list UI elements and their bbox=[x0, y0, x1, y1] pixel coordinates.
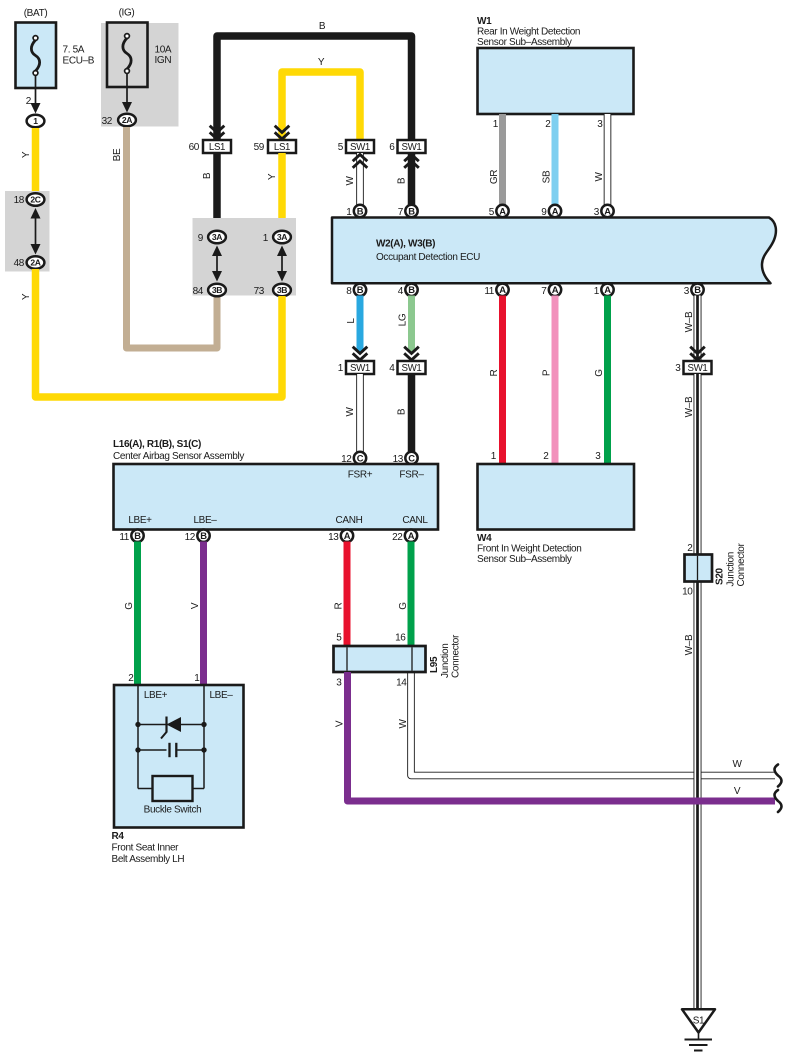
svg-text:7. 5A: 7. 5A bbox=[63, 45, 85, 56]
fuse IGN 10A bbox=[107, 23, 148, 88]
pin 13 label L16 top bbox=[393, 454, 404, 465]
wire label Y lower bbox=[21, 293, 32, 300]
ground hatch 1 bbox=[685, 1039, 713, 1041]
svg-text:14: 14 bbox=[396, 678, 407, 689]
wire B below SW1 6 bbox=[408, 153, 416, 207]
wire G CANL bbox=[408, 542, 415, 648]
wire W to FSR+ bbox=[356, 374, 364, 453]
component W4 title bbox=[477, 533, 581, 565]
wire Y from connector 1 to 2C bbox=[32, 128, 40, 193]
svg-text:FSR–: FSR– bbox=[399, 470, 424, 481]
pin 13 label L16 bottom bbox=[328, 532, 339, 543]
wire label G LBE bbox=[124, 602, 135, 610]
ECU title bbox=[376, 239, 480, 264]
svg-text:V: V bbox=[335, 720, 346, 727]
wire Y return run bbox=[36, 269, 283, 397]
junction connector S20 box bbox=[685, 555, 713, 582]
svg-text:1: 1 bbox=[33, 116, 38, 126]
svg-text:A: A bbox=[604, 284, 611, 295]
pin 16 label L95 bbox=[395, 633, 406, 644]
junction dot right cap bbox=[201, 747, 206, 752]
label LBE- R4 bbox=[209, 690, 233, 701]
svg-text:SW1: SW1 bbox=[350, 142, 370, 153]
svg-text:W: W bbox=[594, 172, 605, 182]
svg-text:SW1: SW1 bbox=[402, 363, 422, 374]
svg-text:9: 9 bbox=[198, 233, 204, 244]
svg-text:7: 7 bbox=[398, 207, 404, 218]
wire label B right bbox=[397, 177, 408, 184]
wire label GR bbox=[489, 170, 500, 184]
junction block 2C/2A gray box bbox=[5, 191, 50, 272]
pin 9 label ECU top bbox=[541, 207, 547, 218]
svg-text:3: 3 bbox=[595, 451, 601, 462]
node A pin11 bbox=[496, 284, 508, 296]
svg-text:Buckle Switch: Buckle Switch bbox=[144, 805, 202, 816]
wire L bbox=[357, 296, 364, 353]
node A pin13 L16 bbox=[341, 530, 353, 542]
connector SW1 1 bbox=[346, 361, 374, 374]
svg-text:B: B bbox=[408, 284, 415, 295]
svg-text:L: L bbox=[346, 318, 357, 324]
svg-text:2C: 2C bbox=[30, 195, 40, 205]
svg-text:84: 84 bbox=[193, 286, 204, 297]
svg-text:B: B bbox=[200, 530, 207, 541]
svg-text:9: 9 bbox=[541, 207, 547, 218]
wire label B mid bbox=[202, 172, 213, 179]
svg-text:LBE–: LBE– bbox=[193, 515, 217, 526]
svg-text:B: B bbox=[694, 284, 701, 295]
svg-text:10: 10 bbox=[682, 587, 693, 598]
svg-text:SW1: SW1 bbox=[688, 363, 708, 374]
wire label W vertical bbox=[398, 719, 409, 729]
pin 3 label SW1 bbox=[675, 363, 681, 374]
wire label BE bbox=[112, 148, 123, 161]
connector node 3A left bbox=[208, 231, 226, 244]
svg-text:Y: Y bbox=[21, 293, 32, 300]
junction dot left zener bbox=[135, 722, 140, 727]
continuation squiggle W bbox=[775, 765, 782, 787]
svg-text:Occupant Detection ECU: Occupant Detection ECU bbox=[376, 252, 480, 263]
svg-text:Junction: Junction bbox=[440, 644, 451, 678]
svg-text:ECU–B: ECU–B bbox=[63, 56, 95, 67]
wire B top run bbox=[217, 36, 412, 143]
svg-text:B: B bbox=[202, 172, 213, 179]
wire R CANH bbox=[344, 542, 351, 648]
svg-text:L16(A), R1(B), S1(C): L16(A), R1(B), S1(C) bbox=[113, 439, 201, 450]
ECU W2/W3 box bbox=[332, 218, 776, 284]
junction block 3A/3B gray box bbox=[193, 218, 297, 296]
svg-text:G: G bbox=[398, 602, 409, 610]
svg-text:3A: 3A bbox=[277, 232, 287, 242]
wire label SB bbox=[542, 170, 553, 183]
svg-text:S20: S20 bbox=[715, 567, 726, 585]
continuation squiggle V bbox=[775, 790, 782, 812]
svg-text:S1: S1 bbox=[693, 1016, 705, 1027]
wire label W-B upper bbox=[684, 311, 695, 332]
junction connector L95 box bbox=[334, 646, 426, 672]
svg-text:5: 5 bbox=[336, 633, 342, 644]
wire W-B long run to ground bbox=[694, 374, 702, 1009]
node A pin9 bbox=[549, 205, 561, 217]
pin 3 label ECU top bbox=[594, 207, 600, 218]
svg-text:A: A bbox=[552, 205, 559, 216]
svg-text:W–B: W–B bbox=[684, 396, 695, 417]
svg-text:32: 32 bbox=[102, 116, 113, 127]
pin 32 label bbox=[102, 116, 113, 127]
wire W-B upper bbox=[694, 296, 702, 362]
component W1 title bbox=[477, 16, 580, 48]
pin 48 label bbox=[14, 258, 25, 269]
shield arrow into LS1 60 bbox=[210, 126, 225, 139]
wire Y top run bbox=[282, 72, 360, 143]
svg-text:3B: 3B bbox=[277, 285, 287, 295]
svg-text:Center Airbag Sensor Assembly: Center Airbag Sensor Assembly bbox=[113, 451, 244, 462]
pin 7 label ECU bottom bbox=[541, 286, 547, 297]
svg-text:C: C bbox=[408, 452, 415, 463]
label LBE+ R4 bbox=[144, 690, 168, 701]
svg-text:Y: Y bbox=[267, 173, 278, 180]
wire label G bbox=[594, 369, 605, 377]
component W4 box bbox=[478, 464, 635, 530]
svg-text:3: 3 bbox=[594, 207, 600, 218]
svg-text:4: 4 bbox=[398, 286, 404, 297]
connector node 1 bbox=[27, 115, 45, 128]
wire B to FSR- bbox=[408, 374, 416, 453]
svg-text:C: C bbox=[357, 452, 364, 463]
wire Y to 3A bbox=[278, 153, 286, 231]
svg-text:3: 3 bbox=[684, 286, 690, 297]
pin 14 label L95 bbox=[396, 678, 407, 689]
svg-text:1: 1 bbox=[346, 207, 352, 218]
wire BE from IG to 3B bbox=[127, 127, 218, 348]
shield arrow up below SW1 6 bbox=[404, 155, 419, 168]
wire label W bottom bbox=[732, 759, 742, 770]
wire G to W4 bbox=[604, 296, 611, 466]
component R4 box bbox=[114, 685, 244, 828]
node C pin13 bbox=[405, 452, 417, 464]
node C pin12 bbox=[354, 452, 366, 464]
svg-text:3A: 3A bbox=[212, 232, 222, 242]
connector LS1 60 bbox=[203, 140, 231, 153]
svg-text:LS1: LS1 bbox=[209, 142, 225, 153]
label S20 Junction Connector bbox=[715, 542, 748, 586]
pin 60 label bbox=[189, 142, 200, 153]
pin 5 label L95 bbox=[336, 633, 342, 644]
svg-text:Front In Weight Detection: Front In Weight Detection bbox=[477, 544, 581, 555]
svg-text:2A: 2A bbox=[122, 115, 132, 125]
svg-text:48: 48 bbox=[14, 258, 25, 269]
svg-text:W–B: W–B bbox=[684, 634, 695, 655]
shield arrow into SW1 1 bbox=[353, 347, 368, 360]
connector node 3A right bbox=[273, 231, 291, 244]
pin 12 label L16 bottom bbox=[185, 532, 196, 543]
svg-text:2: 2 bbox=[545, 119, 551, 130]
pin 9 label bbox=[198, 233, 204, 244]
svg-text:LBE–: LBE– bbox=[209, 690, 233, 701]
pin 11 label L16 bottom bbox=[119, 532, 129, 543]
shield arrow into SW1 4 bbox=[404, 347, 419, 360]
pin 1 label W1 bbox=[493, 119, 499, 130]
wire G LBE+ bbox=[134, 542, 141, 687]
pin 1 label ECU top bbox=[346, 207, 352, 218]
buckle switch element bbox=[153, 776, 193, 801]
pin 3 label W4 bbox=[595, 451, 601, 462]
wire switch stub right bbox=[192, 788, 204, 790]
label Buckle Switch bbox=[144, 805, 202, 816]
pin 1 label 3A right bbox=[263, 233, 269, 244]
node A pin1b bbox=[601, 284, 613, 296]
wire internal left bbox=[137, 686, 139, 789]
pin 59 label bbox=[254, 142, 265, 153]
wire label B top bbox=[319, 21, 326, 32]
node B pin4 bbox=[405, 284, 417, 296]
node B pin11 L16 bbox=[131, 530, 143, 542]
svg-text:Belt Assembly LH: Belt Assembly LH bbox=[112, 854, 185, 865]
pin 5 label ECU top bbox=[489, 207, 495, 218]
svg-text:CANH: CANH bbox=[336, 515, 363, 526]
svg-text:2: 2 bbox=[26, 96, 32, 107]
wire label L bbox=[346, 318, 357, 324]
svg-text:W: W bbox=[732, 759, 742, 770]
zener diode D1 bbox=[161, 717, 181, 739]
pin 12 label L16 top bbox=[341, 454, 352, 465]
wire switch stub left bbox=[138, 788, 153, 790]
svg-text:B: B bbox=[134, 530, 141, 541]
pin 18 label bbox=[14, 195, 25, 206]
pin 1 label W4 bbox=[491, 451, 497, 462]
pin 11 label ECU bottom bbox=[484, 286, 494, 297]
label L95 Junction Connector bbox=[429, 634, 462, 678]
svg-text:W1: W1 bbox=[477, 16, 492, 27]
svg-text:SB: SB bbox=[542, 170, 553, 183]
svg-text:Junction: Junction bbox=[726, 552, 737, 586]
svg-text:3: 3 bbox=[597, 119, 603, 130]
node B pin3 bbox=[691, 284, 703, 296]
svg-text:3: 3 bbox=[675, 363, 681, 374]
label LBE- L16 bbox=[193, 515, 217, 526]
wire label Y top bbox=[318, 57, 325, 68]
node B pin7 bbox=[405, 205, 417, 217]
pin 22 label L16 bottom bbox=[392, 532, 403, 543]
svg-text:6: 6 bbox=[389, 142, 395, 153]
svg-text:W2(A), W3(B): W2(A), W3(B) bbox=[376, 239, 435, 250]
connector node 3B left bbox=[208, 284, 226, 297]
wire W below SW1 5 bbox=[356, 153, 364, 207]
svg-text:R4: R4 bbox=[112, 831, 125, 842]
svg-text:BE: BE bbox=[112, 148, 123, 161]
svg-text:GR: GR bbox=[489, 170, 500, 184]
svg-text:G: G bbox=[124, 602, 135, 610]
svg-text:Rear In Weight Detection: Rear In Weight Detection bbox=[477, 27, 580, 38]
node A pin7 bbox=[549, 284, 561, 296]
svg-text:7: 7 bbox=[541, 286, 547, 297]
wire internal right bbox=[203, 686, 205, 789]
wire label W to FSR bbox=[345, 407, 356, 417]
label 7.5A ECU-B bbox=[63, 45, 95, 67]
ground stem bbox=[698, 1033, 700, 1040]
svg-text:16: 16 bbox=[395, 633, 406, 644]
svg-text:Front Seat Inner: Front Seat Inner bbox=[112, 843, 180, 854]
svg-text:(BAT): (BAT) bbox=[24, 8, 48, 19]
svg-text:11: 11 bbox=[484, 286, 494, 297]
wire label W bbox=[345, 176, 356, 186]
node A pin5 bbox=[496, 205, 508, 217]
wire capacitor row left bbox=[138, 749, 167, 751]
label CANH bbox=[336, 515, 363, 526]
svg-text:LS1: LS1 bbox=[274, 142, 290, 153]
junction dot left cap bbox=[135, 747, 140, 752]
svg-text:A: A bbox=[604, 205, 611, 216]
pin 4 label ECU bottom bbox=[398, 286, 404, 297]
svg-text:(IG): (IG) bbox=[119, 8, 135, 19]
wire zener row bbox=[138, 724, 204, 726]
shield arrow into LS1 59 bbox=[275, 126, 290, 139]
pin 73 label bbox=[254, 286, 265, 297]
node A pin22 L16 bbox=[405, 530, 417, 542]
connector SW1 5 bbox=[346, 140, 374, 153]
label FSR- bbox=[399, 470, 424, 481]
svg-text:73: 73 bbox=[254, 286, 265, 297]
pin 1 label ECU bottom bbox=[594, 286, 600, 297]
wire B to 3A bbox=[213, 153, 221, 231]
connector SW1 4 bbox=[398, 361, 426, 374]
pin 8 label ECU bottom bbox=[346, 286, 352, 297]
svg-text:LBE+: LBE+ bbox=[144, 690, 168, 701]
svg-text:Sensor Sub–Assembly: Sensor Sub–Assembly bbox=[477, 554, 572, 565]
label FSR+ bbox=[348, 470, 373, 481]
wire label R bbox=[489, 369, 500, 376]
node B pin8 bbox=[354, 284, 366, 296]
svg-text:5: 5 bbox=[489, 207, 495, 218]
svg-text:B: B bbox=[357, 205, 364, 216]
double arrow 3A-3B right bbox=[277, 246, 287, 282]
svg-text:SW1: SW1 bbox=[402, 142, 422, 153]
svg-text:1: 1 bbox=[194, 673, 200, 684]
svg-text:W: W bbox=[398, 719, 409, 729]
svg-text:A: A bbox=[552, 284, 559, 295]
IG gray background box bbox=[101, 23, 179, 127]
svg-text:8: 8 bbox=[346, 286, 352, 297]
label CANL bbox=[402, 515, 428, 526]
svg-text:W: W bbox=[345, 407, 356, 417]
svg-text:59: 59 bbox=[254, 142, 265, 153]
ground hatch 3 bbox=[694, 1050, 703, 1052]
svg-text:W–B: W–B bbox=[684, 311, 695, 332]
component L16 title bbox=[113, 439, 244, 462]
svg-text:B: B bbox=[397, 177, 408, 184]
svg-text:3: 3 bbox=[336, 678, 342, 689]
svg-text:5: 5 bbox=[338, 142, 344, 153]
wire label B to FSR bbox=[397, 408, 408, 415]
svg-text:A: A bbox=[344, 530, 351, 541]
svg-text:11: 11 bbox=[119, 532, 129, 543]
svg-text:B: B bbox=[408, 205, 415, 216]
wire GR bbox=[499, 114, 506, 207]
node B pin1 bbox=[354, 205, 366, 217]
connector node 3B right bbox=[273, 284, 291, 297]
connector SW1 3 bbox=[684, 361, 712, 374]
ground hatch 2 bbox=[689, 1044, 708, 1046]
svg-text:13: 13 bbox=[328, 532, 339, 543]
wire label Y mid bbox=[267, 173, 278, 180]
connector node 2A bbox=[27, 256, 45, 269]
arrow into connector 2A(IG) bbox=[122, 74, 132, 113]
pin 3 label L95 bbox=[336, 678, 342, 689]
wire label V bottom bbox=[734, 786, 741, 797]
label LBE+ L16 bbox=[128, 515, 152, 526]
wire label R CANH bbox=[334, 602, 345, 609]
svg-text:1: 1 bbox=[594, 286, 600, 297]
svg-text:22: 22 bbox=[392, 532, 403, 543]
label (IG) bbox=[119, 8, 135, 19]
wire V LBE- bbox=[200, 542, 207, 687]
label 10A IGN bbox=[155, 45, 172, 67]
svg-text:V: V bbox=[190, 602, 201, 609]
component W1 box bbox=[478, 48, 634, 114]
pin 3 label W1 bbox=[597, 119, 603, 130]
ground S1 triangle bbox=[682, 1009, 715, 1032]
svg-text:Y: Y bbox=[21, 151, 32, 158]
connector LS1 59 bbox=[268, 140, 296, 153]
svg-text:B: B bbox=[397, 408, 408, 415]
pin 2 label S20 bbox=[687, 543, 693, 554]
wire capacitor row right bbox=[178, 749, 205, 751]
svg-text:A: A bbox=[499, 205, 506, 216]
wire W bottom run bbox=[411, 672, 775, 776]
wire label LG bbox=[398, 313, 409, 326]
svg-text:Connector: Connector bbox=[451, 634, 462, 678]
wire label V LBE bbox=[190, 602, 201, 609]
svg-text:2: 2 bbox=[128, 673, 134, 684]
wire label Y bbox=[21, 151, 32, 158]
pin 1 label SW1 bbox=[338, 363, 344, 374]
wire label P bbox=[542, 369, 553, 376]
shield arrow into SW1 3 bbox=[690, 347, 705, 360]
wire label W under W1 bbox=[594, 172, 605, 182]
arrow into connector 1 bbox=[31, 76, 41, 114]
svg-text:FSR+: FSR+ bbox=[348, 470, 373, 481]
svg-text:V: V bbox=[734, 786, 741, 797]
svg-text:1: 1 bbox=[491, 451, 497, 462]
connector node 2C bbox=[27, 193, 45, 206]
svg-text:LBE+: LBE+ bbox=[128, 515, 152, 526]
pin 2 label bbox=[26, 96, 32, 107]
svg-text:R: R bbox=[334, 602, 345, 609]
svg-text:2: 2 bbox=[687, 543, 693, 554]
svg-text:60: 60 bbox=[189, 142, 200, 153]
pin 84 label bbox=[193, 286, 204, 297]
svg-text:18: 18 bbox=[14, 195, 25, 206]
wire W from W1 bbox=[604, 114, 612, 207]
wire label W-B mid bbox=[684, 396, 695, 417]
pin 7 label ECU top bbox=[398, 207, 404, 218]
node A pin3 bbox=[601, 205, 613, 217]
svg-text:A: A bbox=[499, 284, 506, 295]
svg-text:10A: 10A bbox=[155, 45, 172, 56]
component R4 title bbox=[112, 831, 185, 865]
component L16 box bbox=[114, 464, 439, 530]
wire V bottom run bbox=[348, 672, 776, 801]
connector node 2A of IG bbox=[118, 114, 136, 127]
svg-text:W4: W4 bbox=[477, 533, 492, 544]
svg-text:LG: LG bbox=[398, 313, 409, 326]
pin 1 label R4 bbox=[194, 673, 200, 684]
capacitor C1 bbox=[170, 743, 177, 757]
svg-text:3B: 3B bbox=[212, 285, 222, 295]
svg-text:SW1: SW1 bbox=[350, 363, 370, 374]
junction dot right zener bbox=[201, 722, 206, 727]
svg-text:12: 12 bbox=[185, 532, 196, 543]
